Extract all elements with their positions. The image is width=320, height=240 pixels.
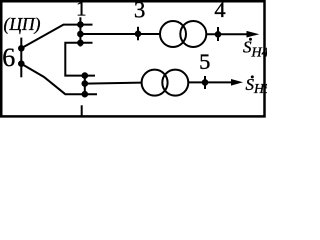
svg-text:4: 4 [214, 0, 225, 22]
svg-text:1: 1 [76, 0, 87, 21]
svg-text:5: 5 [199, 49, 210, 74]
svg-text:(ЦП): (ЦП) [4, 14, 41, 34]
svg-text:3: 3 [134, 0, 146, 22]
svg-text:6: 6 [2, 43, 15, 72]
